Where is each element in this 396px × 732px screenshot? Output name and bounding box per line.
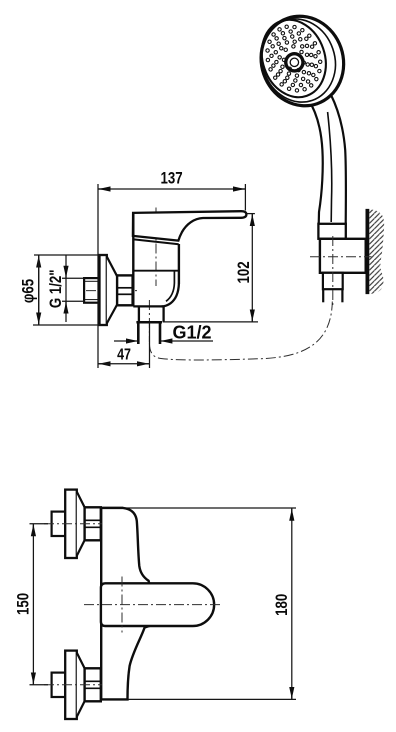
svg-text:150: 150 — [14, 593, 33, 615]
svg-text:G1/2: G1/2 — [173, 323, 212, 343]
svg-text:φ65: φ65 — [19, 278, 38, 303]
svg-text:102: 102 — [234, 261, 253, 283]
svg-text:137: 137 — [160, 169, 182, 188]
svg-text:180: 180 — [272, 594, 291, 616]
svg-text:47: 47 — [117, 346, 131, 364]
svg-text:G 1/2": G 1/2" — [47, 269, 66, 308]
